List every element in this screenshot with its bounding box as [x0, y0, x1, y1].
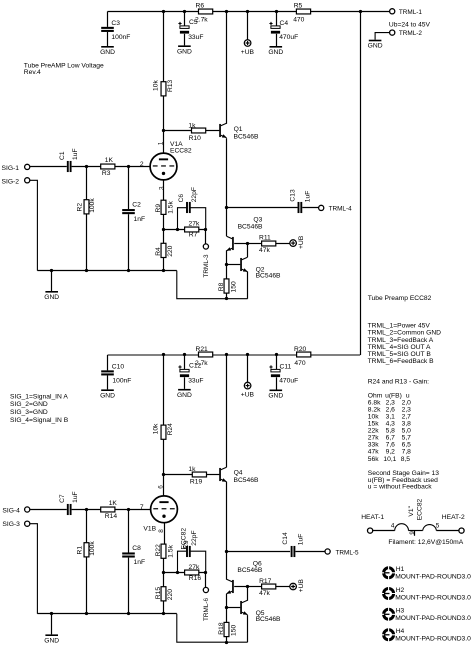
terminal SIG-3 — [2, 521, 37, 614]
transistor Q2 BC546B — [227, 257, 281, 279]
resistor R21 2.7k — [195, 346, 213, 367]
svg-text:1k: 1k — [188, 466, 196, 473]
svg-text:2,0: 2,0 — [402, 399, 412, 406]
filament note — [388, 539, 463, 546]
svg-text:7: 7 — [140, 504, 144, 511]
power +UB at R17 — [290, 579, 305, 593]
label ECC82 rotated — [416, 498, 423, 520]
svg-text:V1B: V1B — [143, 525, 156, 532]
svg-text:R13: R13 — [167, 79, 174, 92]
svg-text:Ohm: Ohm — [368, 392, 383, 399]
svg-text:TRML-3: TRML-3 — [203, 254, 210, 278]
ground at C12 — [177, 389, 192, 399]
svg-text:Rev.4: Rev.4 — [24, 69, 41, 76]
heading Tube Preamp ECC82 — [368, 295, 432, 302]
terminal HEAT-2 pad — [459, 528, 464, 533]
terminal TRML-5 — [325, 549, 359, 556]
svg-text:SIG-2: SIG-2 — [2, 178, 20, 185]
mount pad H4 — [381, 628, 471, 643]
svg-text:2,3: 2,3 — [386, 399, 396, 406]
svg-text:R20: R20 — [294, 346, 307, 353]
svg-text:BC546B: BC546B — [234, 133, 259, 140]
svg-text:15k: 15k — [368, 421, 379, 428]
svg-text:2: 2 — [140, 161, 144, 168]
svg-text:9,2: 9,2 — [386, 449, 396, 456]
ground at TRML-2 — [368, 40, 383, 50]
svg-text:150: 150 — [230, 281, 237, 292]
capacitor C14 1uF — [282, 532, 304, 557]
pin 6 wire of V1B — [158, 473, 165, 496]
svg-text:MOUNT-PAD-ROUND3.0: MOUNT-PAD-ROUND3.0 — [395, 594, 471, 601]
svg-text:GND: GND — [177, 48, 192, 55]
svg-text:TRML_6=FeedBack B: TRML_6=FeedBack B — [368, 358, 435, 365]
junction dots on rail B — [162, 353, 278, 356]
svg-text:C2: C2 — [132, 202, 141, 209]
svg-text:Q4: Q4 — [234, 470, 243, 477]
note Ub=24 to 45V — [389, 21, 431, 28]
wire Q2 emitter — [247, 272, 249, 299]
svg-text:C14: C14 — [282, 532, 289, 545]
svg-text:10,1: 10,1 — [383, 456, 396, 463]
svg-text:R17: R17 — [259, 578, 272, 585]
svg-text:TRML-1: TRML-1 — [399, 9, 423, 16]
svg-text:27k: 27k — [368, 435, 379, 442]
terminal SIG-2 — [2, 178, 38, 271]
svg-text:R18: R18 — [218, 622, 225, 635]
svg-text:SIG_1=Signal_IN A: SIG_1=Signal_IN A — [10, 393, 68, 400]
svg-text:R5: R5 — [294, 3, 303, 10]
svg-text:SIG-4: SIG-4 — [2, 508, 20, 515]
svg-text:10k: 10k — [368, 413, 379, 420]
gain table — [368, 392, 411, 462]
svg-text:33uF: 33uF — [188, 377, 203, 384]
svg-text:1.5k: 1.5k — [167, 201, 174, 214]
svg-text:C7: C7 — [59, 494, 66, 503]
pin 3 wire of V1A — [158, 180, 165, 200]
wire Q3 emitter down — [225, 250, 228, 266]
svg-text:7,8: 7,8 — [402, 449, 412, 456]
svg-text:56k: 56k — [368, 456, 379, 463]
wire rail B to Q4 collector — [226, 355, 228, 467]
resistor R7 27k — [185, 221, 200, 239]
svg-text:MOUNT-PAD-ROUND3.0: MOUNT-PAD-ROUND3.0 — [395, 574, 471, 581]
ground at C5 — [177, 45, 192, 55]
svg-text:V1": V1" — [408, 505, 415, 516]
svg-text:u: u — [406, 392, 410, 399]
svg-text:R8: R8 — [218, 282, 225, 291]
capacitor C10 100nF — [101, 355, 131, 389]
svg-text:C8: C8 — [132, 545, 141, 552]
svg-text:4,3: 4,3 — [386, 421, 396, 428]
svg-text:H2: H2 — [396, 587, 405, 594]
svg-text:10k: 10k — [152, 423, 159, 434]
node cathode B / feedback — [162, 558, 207, 586]
pin 8 wire of V1B — [158, 523, 165, 545]
svg-text:GND: GND — [44, 294, 59, 301]
svg-text:TRML-4: TRML-4 — [329, 206, 353, 213]
tube V1B ECC82 — [143, 496, 177, 533]
node cathode A / feedback — [162, 214, 207, 243]
gain notes — [368, 470, 439, 491]
svg-text:TRML-2: TRML-2 — [399, 30, 423, 37]
svg-text:MOUNT-PAD-ROUND3.0: MOUNT-PAD-ROUND3.0 — [395, 636, 471, 643]
svg-text:22pF: 22pF — [191, 530, 198, 545]
svg-text:1uF: 1uF — [305, 191, 312, 203]
svg-text:BC546B: BC546B — [256, 273, 281, 280]
capacitor C3 100nF — [101, 12, 130, 47]
resistor R9 1.5k — [155, 200, 175, 214]
ground at C4 — [268, 46, 283, 56]
resistor R11 47k — [248, 234, 290, 253]
svg-text:TRML_3=FeedBack A: TRML_3=FeedBack A — [368, 337, 434, 344]
wire Q6 emitter down — [225, 594, 228, 609]
svg-text:8.2k: 8.2k — [368, 406, 381, 413]
svg-text:3,1: 3,1 — [386, 413, 396, 420]
svg-text:C1: C1 — [59, 151, 66, 160]
svg-text:5,0: 5,0 — [402, 428, 412, 435]
svg-text:8: 8 — [158, 529, 165, 533]
svg-text:TRML_5=SIG OUT B: TRML_5=SIG OUT B — [368, 351, 432, 358]
svg-text:33uF: 33uF — [188, 34, 203, 41]
svg-text:1k: 1k — [188, 123, 196, 130]
capacitor C8 1nF — [122, 509, 145, 613]
svg-text:TRML-6: TRML-6 — [203, 597, 210, 621]
power +UB symbol A — [241, 12, 255, 56]
mount pad H2 — [381, 586, 471, 601]
resistor R8 150 — [218, 264, 237, 298]
svg-text:470uF: 470uF — [279, 34, 298, 41]
svg-text:470uF: 470uF — [279, 377, 298, 384]
svg-text:47k: 47k — [368, 449, 379, 456]
svg-text:22pF: 22pF — [191, 187, 198, 202]
svg-text:8,5: 8,5 — [401, 456, 411, 463]
svg-text:1nF: 1nF — [134, 559, 146, 566]
svg-text:GND: GND — [268, 392, 283, 399]
terminal legend — [368, 323, 442, 365]
svg-text:150: 150 — [230, 625, 237, 636]
wire right rail down to channel B — [360, 12, 362, 356]
terminal SIG-1 — [2, 164, 67, 172]
resistor R2 100k — [76, 167, 96, 271]
wire output node B to C14 — [227, 551, 290, 553]
svg-text:u = without Feedback: u = without Feedback — [368, 484, 432, 491]
svg-text:GND: GND — [44, 637, 59, 644]
svg-text:GND: GND — [100, 392, 115, 399]
tube V1A ECC82 — [150, 141, 192, 180]
svg-text:1: 1 — [158, 141, 165, 145]
wire bus B to emitter Q5 — [177, 614, 248, 644]
ground bus A — [37, 269, 176, 272]
power +UB at R11 — [290, 235, 305, 249]
svg-text:27k: 27k — [189, 221, 200, 228]
svg-text:2.7k: 2.7k — [195, 360, 208, 367]
svg-text:HEAT-2: HEAT-2 — [442, 514, 465, 521]
transistor Q1 BC546B — [219, 123, 259, 140]
svg-text:H4: H4 — [396, 628, 405, 635]
svg-text:u(FB): u(FB) — [385, 392, 402, 399]
svg-text:BC546B: BC546B — [256, 616, 281, 623]
svg-text:1K: 1K — [105, 157, 114, 164]
resistor R3 1K — [101, 157, 115, 177]
wire Q4 emitter to output node B — [225, 482, 228, 580]
capacitor C2 1nF — [122, 167, 145, 271]
svg-text:TRML_1=Power 45V: TRML_1=Power 45V — [368, 323, 431, 330]
signal name table — [10, 393, 69, 424]
svg-text:100k: 100k — [89, 541, 96, 556]
transistor Q4 BC546B — [219, 467, 259, 484]
svg-text:5,7: 5,7 — [402, 435, 412, 442]
svg-text:R4: R4 — [155, 247, 162, 256]
label V1 rotated — [408, 505, 415, 516]
terminal TRML-1 — [390, 9, 423, 16]
terminal TRML-3 — [203, 229, 210, 277]
svg-text:GND: GND — [368, 43, 383, 50]
svg-text:2.7k: 2.7k — [195, 17, 208, 24]
svg-text:3: 3 — [158, 186, 165, 190]
svg-text:R10: R10 — [189, 135, 202, 142]
svg-text:33k: 33k — [368, 442, 379, 449]
svg-text:R6: R6 — [196, 3, 205, 10]
capacitor C9 22pF loop — [178, 530, 206, 572]
svg-text:Second Stage Gain= 13: Second Stage Gain= 13 — [368, 470, 439, 477]
terminal TRML-4 — [319, 205, 353, 212]
terminal TRML-6 — [203, 573, 210, 621]
resistor R19 1k — [164, 466, 220, 486]
svg-text:GND: GND — [268, 49, 283, 56]
pin 1 wire of V1A — [158, 129, 165, 153]
wire Q3 base to R11 node — [234, 242, 249, 245]
svg-text:6: 6 — [158, 485, 165, 489]
resistor R16 27k — [185, 564, 202, 582]
svg-text:2,6: 2,6 — [386, 406, 396, 413]
capacitor C13 1uF — [289, 189, 311, 213]
ground symbol bus A — [44, 271, 59, 301]
svg-text:SIG-3: SIG-3 — [2, 521, 20, 528]
svg-text:+UB: +UB — [241, 391, 255, 398]
capacitor C11 470uF — [269, 355, 298, 390]
power +UB symbol B — [241, 355, 255, 398]
ground at C10 — [100, 389, 115, 399]
svg-text:H3: H3 — [396, 608, 405, 615]
mount pad H3 — [381, 607, 471, 622]
wire C1 to R3 — [72, 165, 101, 168]
svg-text:GND: GND — [100, 49, 115, 56]
resistor R18 150 — [218, 608, 237, 642]
svg-text:7,6: 7,6 — [386, 442, 396, 449]
svg-text:6,5: 6,5 — [402, 442, 412, 449]
svg-text:Q1: Q1 — [234, 126, 243, 133]
svg-text:R16: R16 — [189, 575, 202, 582]
svg-text:TRML_4=SIG OUT A: TRML_4=SIG OUT A — [368, 344, 431, 351]
svg-text:27k: 27k — [189, 564, 200, 571]
wire Q2 collector — [247, 243, 249, 257]
svg-text:1K: 1K — [109, 500, 118, 507]
svg-text:+UB: +UB — [298, 579, 305, 593]
svg-text:47k: 47k — [259, 247, 270, 254]
svg-text:SIG_2=GND: SIG_2=GND — [10, 401, 48, 408]
svg-text:C4: C4 — [280, 20, 289, 27]
svg-text:R24 and R13 - Gain:: R24 and R13 - Gain: — [368, 379, 429, 386]
svg-text:Ub=24 to 45V: Ub=24 to 45V — [389, 21, 431, 28]
svg-text:R11: R11 — [259, 234, 271, 241]
svg-text:10k: 10k — [152, 80, 159, 91]
resistor R14 1K — [101, 500, 118, 520]
wire R3 to tube grid pin 2 — [115, 161, 150, 168]
wire C13 to TRML-4 — [302, 207, 318, 209]
svg-text:R19: R19 — [190, 479, 203, 486]
svg-text:SIG_4=Signal_IN B: SIG_4=Signal_IN B — [10, 417, 69, 424]
resistor R1 100k — [76, 510, 96, 614]
ground at C3 — [100, 46, 115, 56]
capacitor C6 22pF loop — [178, 187, 206, 229]
capacitor C4 470uF — [269, 12, 298, 47]
wire +V rail A — [108, 11, 390, 13]
heater label HEAT-1 — [361, 514, 384, 521]
svg-text:TRML-5: TRML-5 — [336, 549, 360, 556]
svg-text:6,7: 6,7 — [386, 435, 396, 442]
svg-text:1nF: 1nF — [134, 216, 146, 223]
capacitor C7 1uF — [59, 491, 79, 515]
wire C14 to TRML-5 — [295, 551, 325, 553]
tube V1B rotated labels — [180, 528, 189, 550]
wire Q1 emitter to output node A — [225, 138, 228, 236]
svg-text:100nF: 100nF — [112, 377, 131, 384]
svg-text:100k: 100k — [89, 198, 96, 213]
svg-text:R15: R15 — [155, 587, 162, 600]
ground symbol bus B — [44, 614, 59, 645]
wire Q5 emitter — [247, 615, 249, 642]
svg-text:47k: 47k — [259, 590, 270, 597]
svg-text:R7: R7 — [189, 232, 198, 239]
svg-text:R1: R1 — [76, 546, 83, 555]
title text — [24, 63, 104, 76]
wire Q6 base to R17 node — [234, 585, 249, 588]
filament of V1 with pins 4 5 9 — [373, 523, 459, 536]
svg-text:2,3: 2,3 — [402, 406, 412, 413]
resistor R15 220 — [155, 587, 174, 614]
svg-text:C11: C11 — [280, 363, 292, 370]
transistor Q5 BC546B — [227, 600, 281, 623]
wire rail A to Q1 collector — [226, 12, 228, 124]
svg-text:R14: R14 — [105, 513, 118, 520]
heater label HEAT-2 — [442, 514, 465, 521]
svg-text:C13: C13 — [289, 189, 296, 202]
mount pad H1 — [381, 566, 471, 581]
capacitor C1 1uF — [59, 148, 79, 172]
svg-text:9: 9 — [409, 531, 416, 535]
capacitor C12 33uF — [178, 355, 203, 389]
svg-text:HEAT-1: HEAT-1 — [361, 514, 384, 521]
svg-text:GND: GND — [177, 392, 192, 399]
wire R14 to tube grid pin 7 — [115, 504, 151, 511]
wire C7 to R14 — [72, 508, 101, 511]
resistor R24 10k — [152, 355, 174, 475]
svg-text:MOUNT-PAD-ROUND3.0: MOUNT-PAD-ROUND3.0 — [395, 615, 471, 622]
svg-text:ECC82: ECC82 — [170, 147, 192, 154]
transistor Q6 BC546B — [226, 560, 263, 593]
resistor R5 470 — [293, 3, 310, 24]
svg-text:5,8: 5,8 — [386, 428, 396, 435]
svg-text:220: 220 — [167, 589, 174, 600]
terminal SIG-4 — [2, 507, 66, 515]
svg-text:4: 4 — [391, 523, 395, 530]
svg-text:1uF: 1uF — [72, 148, 79, 160]
svg-text:TRML_2=Common GND: TRML_2=Common GND — [368, 330, 442, 337]
resistor R20 470 — [294, 346, 311, 367]
svg-text:R2: R2 — [76, 203, 83, 212]
svg-text:R21: R21 — [196, 346, 209, 353]
svg-text:100nF: 100nF — [111, 34, 130, 41]
svg-text:6.8k: 6.8k — [368, 399, 381, 406]
svg-text:1uF: 1uF — [72, 491, 79, 503]
svg-text:ECC82: ECC82 — [416, 498, 423, 520]
terminal TRML-2 — [375, 30, 422, 40]
resistor R13 10k — [152, 12, 174, 131]
svg-text:Tube Preamp ECC82: Tube Preamp ECC82 — [368, 295, 432, 302]
wire bus A to emitter Q2 — [177, 271, 248, 301]
junction dots on rail A — [162, 10, 362, 13]
svg-text:Filament: 12,6V@150mA: Filament: 12,6V@150mA — [388, 539, 463, 546]
svg-text:2,7: 2,7 — [402, 413, 412, 420]
svg-text:R9: R9 — [155, 204, 162, 213]
svg-text:470: 470 — [293, 17, 304, 24]
resistor R4 220 — [155, 243, 174, 270]
resistor R6 2.7k — [195, 3, 213, 24]
svg-text:+UB: +UB — [298, 235, 305, 249]
svg-text:BC546B: BC546B — [234, 477, 259, 484]
transistor Q3 BC546B — [226, 217, 263, 251]
svg-text:1.5k: 1.5k — [167, 544, 174, 557]
resistor R22 1.5k — [155, 544, 175, 558]
gain table heading — [368, 379, 429, 386]
svg-text:R24: R24 — [167, 423, 174, 436]
svg-text:1uF: 1uF — [297, 534, 304, 546]
svg-text:C6: C6 — [178, 194, 185, 203]
svg-text:C3: C3 — [111, 20, 120, 27]
ground at C11 — [268, 390, 283, 400]
svg-text:BC546B: BC546B — [237, 567, 262, 574]
capacitor C5 33uF — [178, 12, 203, 46]
resistor R10 1k — [164, 123, 220, 143]
svg-text:5: 5 — [436, 523, 440, 530]
svg-text:C10: C10 — [112, 363, 125, 370]
svg-text:220: 220 — [167, 245, 174, 256]
wire output node A to C13 — [227, 207, 298, 209]
svg-text:R22: R22 — [155, 544, 162, 557]
svg-text:470: 470 — [294, 360, 305, 367]
svg-text:22k: 22k — [368, 428, 379, 435]
svg-text:SIG-1: SIG-1 — [2, 165, 20, 172]
svg-text:SIG_3=GND: SIG_3=GND — [10, 409, 48, 416]
ground bus B — [37, 612, 176, 615]
resistor R17 47k — [248, 578, 290, 597]
wire +V rail B — [108, 354, 361, 356]
svg-text:+UB: +UB — [241, 49, 255, 56]
svg-text:R3: R3 — [102, 170, 111, 177]
svg-text:H1: H1 — [396, 566, 405, 573]
wire Q5 collector — [247, 587, 249, 601]
terminal HEAT-1 pad — [368, 528, 373, 533]
svg-text:BC546B: BC546B — [238, 224, 263, 231]
svg-text:3,8: 3,8 — [402, 421, 412, 428]
